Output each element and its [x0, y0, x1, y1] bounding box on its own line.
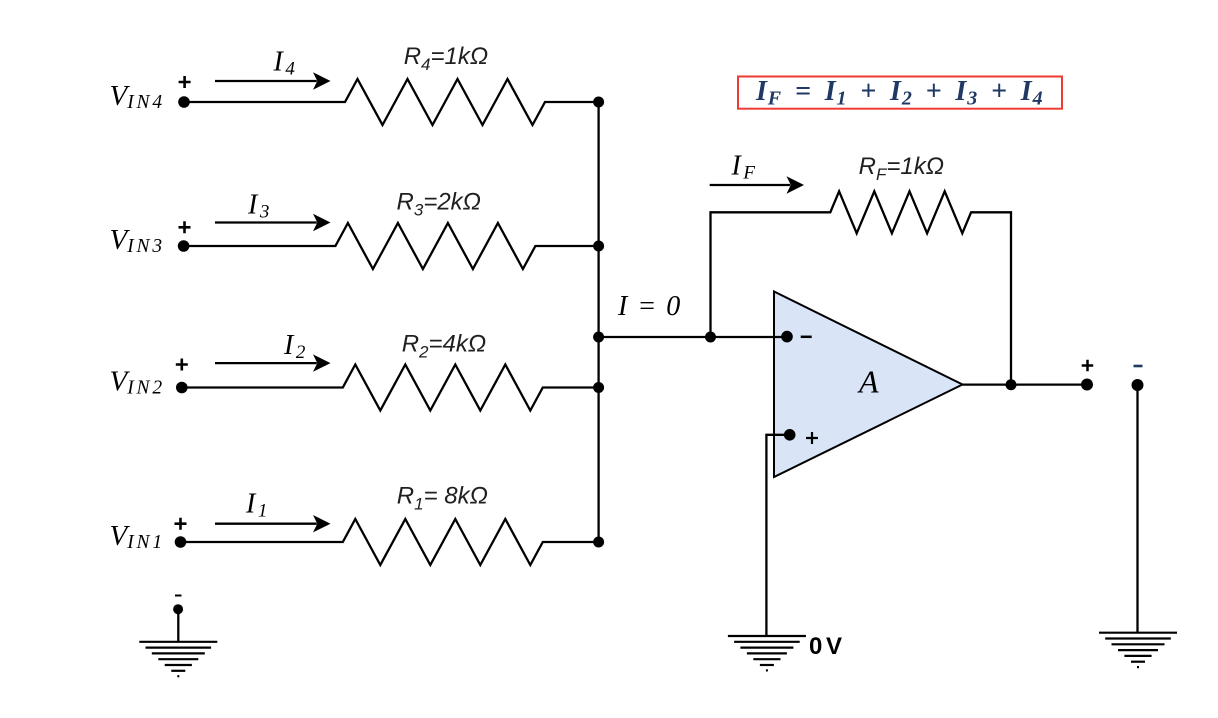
svg-text:I = 0: I = 0 [617, 291, 682, 322]
svg-text:R1= 8kΩ: R1= 8kΩ [397, 483, 488, 514]
svg-text:A: A [857, 364, 879, 400]
svg-text:R2=4kΩ: R2=4kΩ [402, 331, 486, 362]
svg-text:0 V: 0 V [809, 633, 842, 660]
svg-text:IF = I1 + I2 + I3 + I4: IF = I1 + I2 + I3 + I4 [755, 76, 1046, 110]
svg-text:RF=1kΩ: RF=1kΩ [859, 153, 944, 184]
svg-text:R3=2kΩ: R3=2kΩ [397, 189, 481, 220]
svg-text:R4=1kΩ: R4=1kΩ [404, 43, 488, 74]
